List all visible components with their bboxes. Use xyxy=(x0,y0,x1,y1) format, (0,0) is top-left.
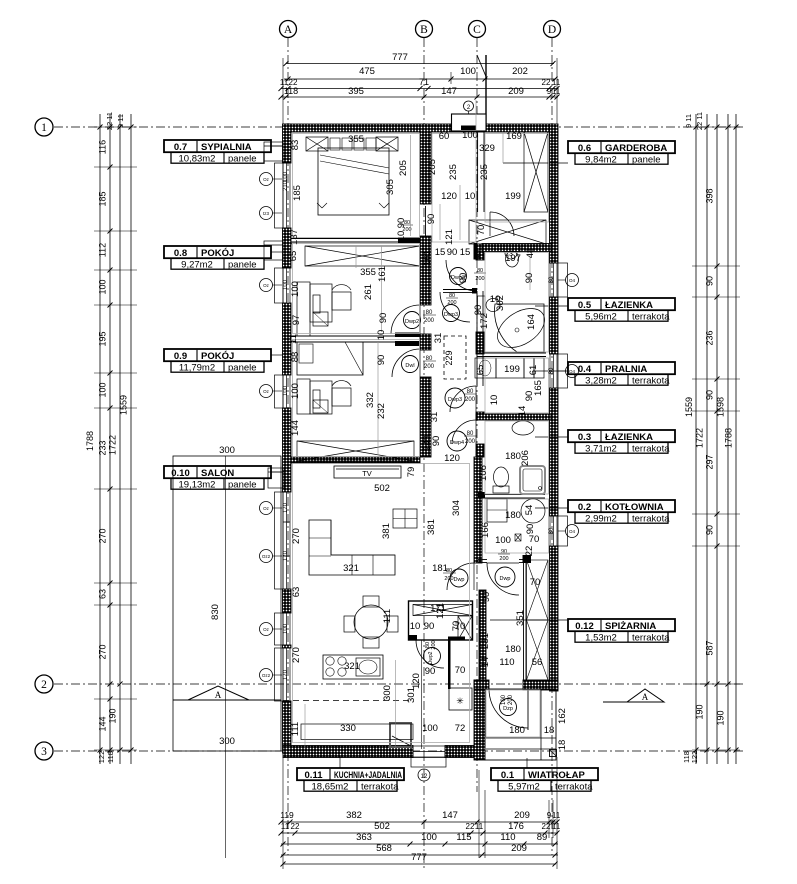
svg-text:170: 170 xyxy=(283,669,289,680)
svg-text:3,28m2: 3,28m2 xyxy=(585,375,617,386)
svg-text:KUCHNIA+JADALNIA: KUCHNIA+JADALNIA xyxy=(334,770,402,781)
svg-text:475: 475 xyxy=(359,66,375,77)
svg-text:63: 63 xyxy=(291,587,302,598)
svg-text:195: 195 xyxy=(98,331,108,346)
svg-text:115: 115 xyxy=(456,832,471,843)
svg-text:A: A xyxy=(642,692,649,702)
bottom dimension chain 777 xyxy=(283,863,556,865)
interior wall B (hatched) xyxy=(420,132,431,204)
axis circle B xyxy=(416,21,433,38)
svg-text:89: 89 xyxy=(537,832,548,843)
svg-text:232: 232 xyxy=(376,403,387,419)
entrance porch xyxy=(485,689,556,760)
svg-text:Oz2: Oz2 xyxy=(262,673,271,678)
svg-text:90: 90 xyxy=(447,247,458,258)
svg-text:11: 11 xyxy=(281,822,290,831)
svg-text:70: 70 xyxy=(455,665,466,676)
svg-text:321: 321 xyxy=(343,563,359,574)
svg-text:2,99m2: 2,99m2 xyxy=(585,513,617,524)
svg-text:0.10: 0.10 xyxy=(171,468,190,479)
washbasin lazienka 0.3 xyxy=(512,421,534,435)
svg-text:10: 10 xyxy=(410,621,421,632)
svg-text:panele: panele xyxy=(228,259,257,270)
svg-text:88: 88 xyxy=(290,352,301,363)
section marker A right xyxy=(627,689,664,702)
svg-text:382: 382 xyxy=(346,810,362,821)
svg-text:Dwl: Dwl xyxy=(405,363,414,369)
axis circle A xyxy=(280,21,297,38)
door kitchen xyxy=(447,563,474,590)
garderoba left wall xyxy=(477,132,479,212)
svg-text:305: 305 xyxy=(385,179,396,195)
svg-text:180: 180 xyxy=(505,510,521,521)
svg-text:502: 502 xyxy=(374,483,390,494)
svg-text:209: 209 xyxy=(514,810,530,821)
svg-text:100: 100 xyxy=(501,694,507,705)
sofa salon xyxy=(309,520,395,575)
room label 0.8 POKÓJ xyxy=(164,246,271,258)
small circle 12 xyxy=(418,769,430,781)
bottom outer wall xyxy=(283,746,413,758)
svg-text:166: 166 xyxy=(480,522,491,538)
windows right wall xyxy=(550,263,557,297)
svg-text:54: 54 xyxy=(524,505,535,516)
svg-text:199: 199 xyxy=(504,364,520,375)
room label 0.1 WIATROŁAP xyxy=(491,768,598,780)
circle 3 xyxy=(505,247,517,259)
bottom dimension chain 1122/502/2211/176/2211 xyxy=(281,832,558,834)
svg-text:121: 121 xyxy=(444,229,455,245)
svg-text:KOTŁOWNIA: KOTŁOWNIA xyxy=(605,502,664,513)
svg-text:56: 56 xyxy=(532,657,543,668)
axis D line xyxy=(551,38,553,855)
svg-text:PRALNIA: PRALNIA xyxy=(605,364,647,375)
pralnia bottom wall xyxy=(476,414,551,420)
desk pokoj 0.9 xyxy=(297,379,310,414)
svg-text:144: 144 xyxy=(290,420,301,436)
svg-text:D: D xyxy=(548,24,556,36)
svg-text:1598: 1598 xyxy=(716,397,726,417)
svg-text:ŁAZIENKA: ŁAZIENKA xyxy=(605,300,653,311)
svg-text:0.7: 0.7 xyxy=(174,142,187,153)
svg-text:90: 90 xyxy=(425,666,436,677)
bed pokoj 0.9 xyxy=(297,342,363,375)
svg-text:40: 40 xyxy=(472,250,483,261)
room label 0.4 PRALNIA xyxy=(568,362,675,374)
svg-text:202: 202 xyxy=(512,66,528,77)
right outer wall xyxy=(550,124,559,263)
svg-text:300: 300 xyxy=(219,445,235,456)
left outer wall xyxy=(283,124,292,163)
room label 0.9 POKÓJ xyxy=(164,349,271,361)
svg-text:110: 110 xyxy=(499,657,514,668)
svg-text:22 11: 22 11 xyxy=(695,112,704,130)
room finish outlines xyxy=(293,134,420,238)
small circle 2 xyxy=(464,101,474,111)
svg-text:205: 205 xyxy=(398,160,409,176)
shelf spizarnia xyxy=(527,560,549,620)
svg-text:261: 261 xyxy=(363,284,374,300)
svg-text:181: 181 xyxy=(432,563,448,574)
svg-text:14: 14 xyxy=(480,657,491,668)
svg-text:90: 90 xyxy=(481,592,492,603)
svg-text:1559: 1559 xyxy=(119,395,129,415)
svg-text:Oz: Oz xyxy=(263,389,270,394)
door wiatrolap entrance xyxy=(489,689,528,728)
svg-text:12: 12 xyxy=(421,774,428,780)
garderoba bottom wall xyxy=(482,244,551,252)
svg-text:3,71m2: 3,71m2 xyxy=(585,443,617,454)
svg-text:777: 777 xyxy=(392,52,408,63)
svg-text:65: 65 xyxy=(475,365,486,376)
door pralnia xyxy=(450,386,476,412)
svg-text:111: 111 xyxy=(382,609,393,623)
svg-text:terrakota: terrakota xyxy=(632,632,670,643)
door lazienka 0.5 xyxy=(446,260,477,291)
svg-text:Dwp4: Dwp4 xyxy=(450,440,464,446)
svg-text:terrakota: terrakota xyxy=(555,781,593,792)
svg-text:5,97m2: 5,97m2 xyxy=(508,781,540,792)
side table salon xyxy=(393,509,417,528)
svg-text:185: 185 xyxy=(98,191,108,206)
axis A line xyxy=(287,38,289,855)
svg-text:200: 200 xyxy=(465,397,476,403)
svg-text:90: 90 xyxy=(705,525,715,535)
window circles left xyxy=(260,173,273,186)
top dimension chain 11 22 71 22 11 xyxy=(281,88,558,90)
top dimension chain 475/100/202 xyxy=(284,78,556,80)
axis B line xyxy=(423,38,425,868)
svg-text:1788: 1788 xyxy=(85,431,95,451)
room label 0.10 SALON xyxy=(164,466,271,478)
svg-text:Oz: Oz xyxy=(263,627,270,632)
svg-text:WIATROŁAP: WIATROŁAP xyxy=(528,770,585,781)
svg-text:C: C xyxy=(473,24,481,36)
svg-text:2: 2 xyxy=(41,679,47,691)
svg-text:9,84m2: 9,84m2 xyxy=(585,154,617,165)
svg-text:70: 70 xyxy=(476,225,487,236)
svg-text:144: 144 xyxy=(98,716,108,731)
svg-text:0.5: 0.5 xyxy=(578,300,592,311)
svg-text:355: 355 xyxy=(348,134,364,145)
svg-text:270: 270 xyxy=(291,528,302,544)
label leader lines xyxy=(271,145,282,147)
svg-text:110: 110 xyxy=(500,832,515,843)
bottom dimension chain 119/382/147/209/911 xyxy=(281,821,558,823)
svg-text:O4: O4 xyxy=(569,529,576,534)
svg-text:100: 100 xyxy=(422,723,438,734)
svg-text:10: 10 xyxy=(376,330,387,341)
svg-text:381: 381 xyxy=(426,519,437,535)
svg-text:80: 80 xyxy=(549,527,555,534)
svg-text:190: 190 xyxy=(695,704,705,719)
door kitchen island xyxy=(416,640,444,668)
svg-text:90: 90 xyxy=(458,273,469,284)
svg-text:panele: panele xyxy=(228,153,257,164)
boiler kotlownia xyxy=(487,499,507,522)
svg-text:100: 100 xyxy=(462,130,478,141)
svg-text:1722: 1722 xyxy=(108,435,118,455)
svg-text:63: 63 xyxy=(98,589,108,599)
svg-text:162: 162 xyxy=(557,708,568,724)
svg-text:5,96m2: 5,96m2 xyxy=(585,311,617,322)
svg-text:1788: 1788 xyxy=(724,428,734,448)
svg-text:229: 229 xyxy=(444,350,454,365)
svg-text:65: 65 xyxy=(288,251,299,262)
axis circle D xyxy=(544,21,561,38)
svg-text:O4: O4 xyxy=(569,278,576,283)
svg-text:304: 304 xyxy=(451,500,462,516)
svg-text:Dwp3: Dwp3 xyxy=(448,397,462,403)
svg-text:147: 147 xyxy=(442,810,458,821)
door hall xyxy=(440,292,470,322)
svg-text:90: 90 xyxy=(424,621,435,632)
svg-text:100: 100 xyxy=(98,279,108,294)
terrace door bottom xyxy=(413,746,445,757)
door garderoba xyxy=(490,212,514,236)
svg-text:22: 22 xyxy=(542,78,551,87)
room label 0.7 SYPIALNIA xyxy=(164,140,271,152)
svg-text:111: 111 xyxy=(290,722,301,736)
svg-text:200: 200 xyxy=(424,318,435,324)
svg-text:97: 97 xyxy=(291,315,302,326)
svg-text:61: 61 xyxy=(528,365,539,376)
svg-text:235: 235 xyxy=(479,164,490,180)
door kotlownia xyxy=(487,563,519,595)
bathtub corner lazienka 0.5 xyxy=(495,304,544,352)
svg-text:300: 300 xyxy=(219,736,235,747)
svg-text:200: 200 xyxy=(447,300,456,306)
kitchen island xyxy=(409,601,473,640)
svg-text:0.11: 0.11 xyxy=(305,770,324,781)
axis 2 line xyxy=(54,683,745,685)
svg-text:180: 180 xyxy=(505,451,521,462)
svg-text:300: 300 xyxy=(382,685,393,701)
svg-text:180: 180 xyxy=(509,725,525,736)
door sypialnia xyxy=(425,206,427,236)
svg-text:199: 199 xyxy=(505,191,521,202)
room label 0.2 KOTŁOWNIA xyxy=(568,500,675,512)
svg-text:83: 83 xyxy=(290,140,301,151)
svg-text:106: 106 xyxy=(478,465,489,481)
svg-text:14: 14 xyxy=(517,406,528,417)
shower lazienka 0.3 xyxy=(520,466,545,494)
svg-text:1559: 1559 xyxy=(684,397,694,417)
wall between 0.8 and 0.9 xyxy=(291,335,395,337)
toilet lazienka 0.3 xyxy=(494,467,509,487)
svg-text:31: 31 xyxy=(429,412,440,423)
svg-text:15: 15 xyxy=(435,247,446,258)
svg-text:72: 72 xyxy=(455,723,466,734)
svg-text:332: 332 xyxy=(365,392,376,408)
lazienka 0.5 bottom wall xyxy=(477,352,546,354)
svg-text:0.6: 0.6 xyxy=(578,143,591,154)
svg-text:270: 270 xyxy=(98,644,108,659)
svg-text:205: 205 xyxy=(427,159,438,175)
svg-text:321: 321 xyxy=(344,661,360,672)
svg-text:terrakota: terrakota xyxy=(632,311,670,322)
svg-text:70: 70 xyxy=(530,577,541,588)
room label 0.12 SPIŻARNIA xyxy=(568,619,675,631)
svg-text:830: 830 xyxy=(210,604,221,620)
svg-text:90: 90 xyxy=(396,218,407,229)
svg-text:100: 100 xyxy=(283,623,289,634)
svg-text:18,65m2: 18,65m2 xyxy=(312,781,349,792)
svg-text:197: 197 xyxy=(505,253,521,264)
svg-text:18: 18 xyxy=(557,740,568,751)
wardrobe 0.9 salon xyxy=(297,441,414,461)
overhang dashed xyxy=(283,700,412,702)
svg-text:90: 90 xyxy=(525,524,536,535)
svg-text:170: 170 xyxy=(283,550,289,561)
section marker A left xyxy=(188,686,249,700)
svg-text:11: 11 xyxy=(288,334,299,344)
svg-text:22: 22 xyxy=(524,546,535,557)
svg-text:15: 15 xyxy=(460,247,471,258)
svg-text:381: 381 xyxy=(381,523,392,539)
svg-text:GARDEROBA: GARDEROBA xyxy=(605,143,667,154)
svg-text:209: 209 xyxy=(508,86,524,97)
svg-text:Dzp: Dzp xyxy=(503,706,513,712)
svg-text:panele: panele xyxy=(632,154,661,165)
room label 0.5 ŁAZIENKA xyxy=(568,298,675,310)
svg-text:395: 395 xyxy=(348,86,364,97)
svg-text:90: 90 xyxy=(524,391,535,402)
svg-text:363: 363 xyxy=(356,832,372,843)
room label 0.6 GARDEROBA xyxy=(568,141,675,153)
svg-text:✳: ✳ xyxy=(456,696,464,706)
wardrobe pokoj 0.8 xyxy=(305,246,420,266)
svg-text:270: 270 xyxy=(98,528,108,543)
svg-text:19,13m2: 19,13m2 xyxy=(179,479,216,490)
closet garderoba bottom xyxy=(469,220,546,244)
svg-text:200: 200 xyxy=(431,640,437,649)
svg-text:71: 71 xyxy=(419,77,429,87)
svg-text:502: 502 xyxy=(374,821,390,832)
svg-text:A: A xyxy=(215,690,222,700)
svg-text:90: 90 xyxy=(376,355,387,366)
svg-text:100: 100 xyxy=(290,383,301,399)
svg-text:Oz: Oz xyxy=(263,177,270,182)
door lazienka 0.3 xyxy=(452,420,476,444)
hall partition xyxy=(443,289,477,291)
svg-text:10: 10 xyxy=(396,231,407,242)
kitchen corridor wall xyxy=(474,457,482,563)
svg-text:200: 200 xyxy=(499,556,508,562)
round table kitchen xyxy=(354,605,388,639)
wiatrolap left wall xyxy=(474,680,485,760)
svg-text:90: 90 xyxy=(705,390,715,400)
svg-text:0.9: 0.9 xyxy=(174,351,187,362)
svg-text:48: 48 xyxy=(525,248,536,259)
bottom counter kitchen xyxy=(301,724,413,740)
svg-text:161: 161 xyxy=(377,266,388,282)
door Dwl pokoj 0.9 xyxy=(392,349,420,377)
svg-text:22: 22 xyxy=(291,822,300,831)
svg-text:Dwp: Dwp xyxy=(453,577,464,583)
axis C line xyxy=(476,38,478,792)
svg-text:SALON: SALON xyxy=(201,468,234,479)
svg-text:398: 398 xyxy=(705,188,715,203)
svg-text:0.12: 0.12 xyxy=(575,621,594,632)
svg-text:170: 170 xyxy=(283,502,289,513)
room label 0.11 KUCHNIA+JADALNIA xyxy=(297,768,404,780)
fridge xyxy=(449,688,472,710)
chimney box top xyxy=(452,114,487,131)
svg-text:11,79m2: 11,79m2 xyxy=(179,362,215,373)
svg-text:100: 100 xyxy=(283,385,289,396)
svg-text:120: 120 xyxy=(441,191,457,202)
wall between 0.7 and 0.8 xyxy=(291,238,420,240)
svg-text:POKÓJ: POKÓJ xyxy=(201,350,234,362)
svg-text:90: 90 xyxy=(426,214,437,225)
svg-text:1,53m2: 1,53m2 xyxy=(585,632,617,643)
wall between 0.9 and salon xyxy=(291,457,420,463)
svg-text:236: 236 xyxy=(705,330,715,345)
top dimension chain 777 xyxy=(286,63,554,65)
svg-text:POKÓJ: POKÓJ xyxy=(201,247,234,259)
svg-text:70: 70 xyxy=(529,534,540,545)
svg-text:1: 1 xyxy=(41,122,47,134)
right dimension chains xyxy=(695,114,697,764)
axis circle 2 xyxy=(35,675,53,693)
window circles right xyxy=(566,274,579,287)
svg-text:90: 90 xyxy=(431,436,442,447)
svg-text:ŁAZIENKA: ŁAZIENKA xyxy=(605,432,653,443)
svg-text:0.3: 0.3 xyxy=(578,432,591,443)
svg-text:Dwp2: Dwp2 xyxy=(405,319,419,325)
svg-text:185: 185 xyxy=(292,185,303,201)
svg-text:100: 100 xyxy=(98,382,108,397)
svg-text:122: 122 xyxy=(97,751,106,764)
room label 0.3 ŁAZIENKA xyxy=(568,430,675,442)
svg-text:0.1: 0.1 xyxy=(501,770,515,781)
svg-text:70: 70 xyxy=(451,621,462,632)
lazienka 0.3 bottom wall xyxy=(477,494,545,496)
svg-text:terrakota: terrakota xyxy=(361,781,399,792)
svg-text:329: 329 xyxy=(479,143,495,154)
svg-text:Dwp: Dwp xyxy=(499,576,510,582)
svg-text:100: 100 xyxy=(283,279,289,290)
svg-text:147: 147 xyxy=(441,86,457,97)
svg-text:panele: panele xyxy=(228,479,257,490)
svg-text:terrakota: terrakota xyxy=(632,375,670,386)
svg-text:270: 270 xyxy=(291,647,302,663)
leader C xyxy=(477,55,487,79)
svg-text:118: 118 xyxy=(284,86,298,96)
shaft dashed xyxy=(444,336,466,379)
wardrobe garderoba xyxy=(524,132,548,212)
toilet lazienka 0.5b xyxy=(504,246,520,252)
axis circle C xyxy=(469,21,486,38)
svg-text:200: 200 xyxy=(465,439,476,445)
svg-text:90: 90 xyxy=(378,313,389,324)
spizarnia partition wall xyxy=(523,560,525,680)
kotlownia bottom wall xyxy=(478,559,487,561)
svg-text:O4: O4 xyxy=(569,369,576,374)
svg-text:100: 100 xyxy=(421,832,437,843)
axis circle 1 xyxy=(35,118,53,136)
svg-text:60: 60 xyxy=(439,131,450,142)
svg-text:118: 118 xyxy=(106,751,115,763)
svg-text:10: 10 xyxy=(465,191,476,202)
svg-text:22: 22 xyxy=(542,822,551,831)
terrace xyxy=(173,456,281,751)
bed sypialnia xyxy=(306,137,328,151)
svg-text:209: 209 xyxy=(511,843,527,854)
washer pralnia xyxy=(475,358,496,378)
svg-text:777: 777 xyxy=(411,852,427,863)
